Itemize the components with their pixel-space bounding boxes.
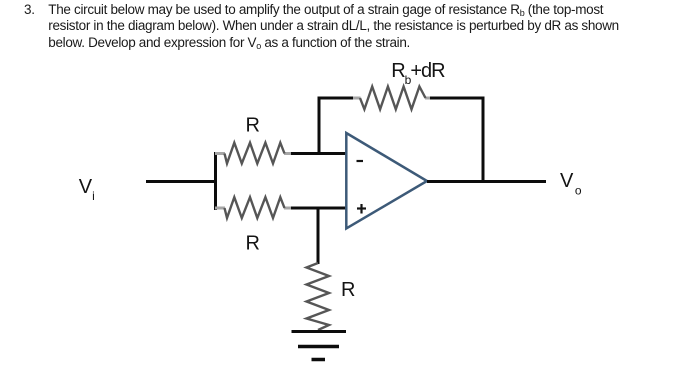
svg-text:Rb+dR: Rb+dR [391,60,445,87]
node: input junction vertical bus [214,152,217,210]
ground [292,332,347,360]
op-amp U1 [346,133,427,229]
wire: R1 to inverting input [291,152,347,155]
resistor Rb+dR (feedback) [353,87,432,110]
wire: feedback left vertical (inverting node up) [318,97,321,156]
resistor R3 (to ground) [307,263,330,330]
svg-text:Vo: Vo [560,170,582,198]
svg-text:R: R [341,279,355,301]
svg-text:R: R [246,115,260,137]
svg-text:Vi: Vi [79,176,95,203]
resistor R1 (top input resistor) [215,143,293,164]
wire: output [427,180,546,183]
op-amp plus sign [357,204,366,214]
wire: non-inverting node down to R3 [317,207,320,264]
wire: R2 to non-inverting input [291,207,347,210]
op-amp minus sign [357,160,364,162]
wire: feedback right vertical [482,97,485,184]
svg-text:R: R [246,233,260,255]
wire: feedback top right [430,97,485,100]
resistor R2 (bottom input resistor) [215,197,293,218]
wire: input from Vi [146,180,216,183]
wire: feedback top left [318,97,355,100]
